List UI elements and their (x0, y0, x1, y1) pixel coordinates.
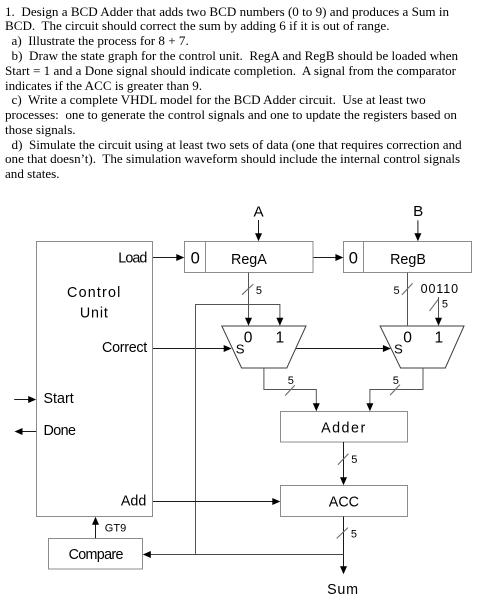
wire mux M2 output to adder (370, 368, 423, 404)
svg-text:5: 5 (393, 375, 399, 387)
svg-text:00110: 00110 (421, 282, 459, 296)
svg-text:B: B (413, 203, 423, 220)
svg-text:5: 5 (394, 285, 400, 297)
register RegB box (344, 242, 472, 273)
slash constant bus (430, 299, 439, 311)
svg-text:Sum: Sum (327, 582, 359, 598)
wire ACC output branch to compare (150, 554, 344, 556)
wire ACC feedback to mux M1 input 1 (196, 305, 280, 554)
wire B input arrow (417, 220, 419, 234)
svg-text:Load: Load (118, 251, 147, 267)
svg-text:5: 5 (351, 454, 357, 466)
svg-text:5: 5 (288, 375, 294, 387)
svg-text:5: 5 (256, 285, 262, 297)
svg-text:Add: Add (121, 494, 146, 510)
svg-text:Control: Control (67, 285, 122, 301)
svg-text:Done: Done (44, 423, 77, 439)
wire A input arrow (258, 220, 260, 234)
RegB cell divider (363, 242, 365, 273)
slash adder out bus (338, 454, 349, 465)
svg-text:ACC: ACC (329, 495, 359, 511)
svg-text:Compare: Compare (69, 547, 124, 563)
wire Correct to mux M1 select (153, 348, 225, 350)
svg-text:S: S (394, 342, 403, 357)
slash mux M1 out bus (285, 385, 295, 395)
slash RegB bus (402, 283, 413, 295)
register RegA box (185, 242, 314, 273)
svg-text:5: 5 (442, 299, 448, 311)
wire adder output to ACC (343, 442, 345, 478)
svg-text:Correct: Correct (102, 340, 147, 356)
wire GT9 compare to control unit (95, 524, 97, 538)
wire RegA output to mux M1 input 0 (248, 273, 250, 319)
svg-text:5: 5 (351, 529, 357, 541)
wire mux M1 to mux M2 select (296, 348, 383, 350)
adder box (281, 412, 408, 443)
svg-text:S: S (236, 342, 245, 357)
compare box (49, 539, 143, 570)
svg-text:1: 1 (276, 330, 285, 347)
svg-text:Start: Start (44, 391, 74, 407)
svg-text:A: A (254, 203, 265, 220)
svg-text:0: 0 (244, 330, 253, 347)
svg-text:1: 1 (435, 330, 444, 347)
wire mux M1 output to adder (264, 368, 316, 404)
svg-text:GT9: GT9 (105, 523, 126, 535)
wire Start input (14, 399, 29, 401)
wire ACC output to Sum (343, 517, 345, 568)
svg-text:Adder: Adder (321, 420, 367, 436)
slash RegA bus (242, 284, 253, 295)
svg-text:Unit: Unit (80, 306, 109, 322)
wire RegA to RegB (314, 257, 337, 259)
svg-text:0: 0 (403, 330, 412, 347)
slash mux M2 out bus (390, 385, 400, 396)
svg-text:0: 0 (349, 250, 358, 268)
ACC box (281, 486, 408, 517)
svg-text:RegB: RegB (390, 252, 426, 268)
wire constant 00110 to mux M2 input 1 (438, 297, 440, 319)
wire Add to ACC (153, 501, 273, 503)
wire Load to RegA (153, 257, 177, 259)
mux M2 trapezoid (380, 326, 464, 368)
wire RegB output to mux M2 input 0 (407, 273, 409, 327)
svg-text:RegA: RegA (231, 252, 267, 268)
svg-text:0: 0 (191, 250, 200, 268)
slash ACC out bus (337, 528, 348, 539)
mux M1 trapezoid (222, 326, 306, 368)
wire Done output (22, 431, 36, 433)
RegA cell divider (205, 242, 207, 273)
control unit box (37, 242, 153, 517)
